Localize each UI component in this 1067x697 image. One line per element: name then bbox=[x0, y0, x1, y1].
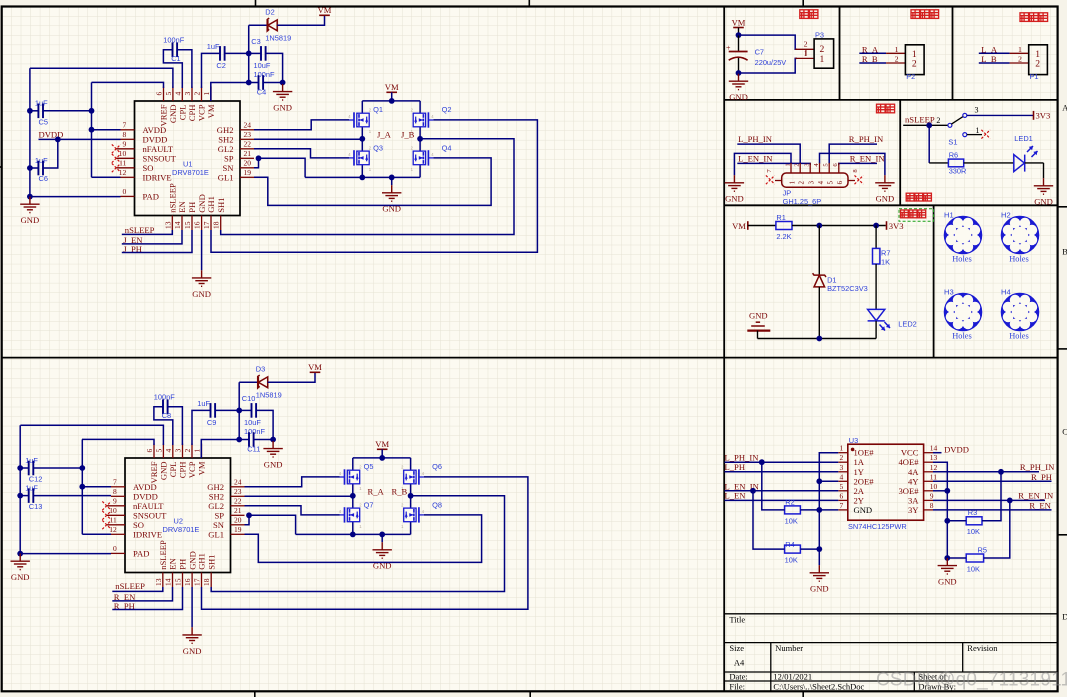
svg-text:23: 23 bbox=[234, 487, 242, 496]
svg-text:8: 8 bbox=[123, 130, 127, 139]
wire 3A R_EN_IN bbox=[933, 499, 1045, 501]
switch lever bbox=[951, 116, 963, 124]
svg-text:J_B: J_B bbox=[401, 129, 415, 139]
wire pin14 VCC to DVDD bbox=[933, 452, 942, 454]
svg-text:VM: VM bbox=[197, 461, 207, 475]
pin 9 3A U3 bbox=[924, 499, 933, 501]
svg-text:2.2K: 2.2K bbox=[776, 232, 791, 241]
svg-text:16: 16 bbox=[183, 578, 192, 586]
capacitor C10 10uF bbox=[252, 403, 257, 418]
svg-text:1N5819: 1N5819 bbox=[256, 391, 282, 400]
wire nSLEEP to pin13 U2 bbox=[112, 587, 163, 591]
svg-text:13: 13 bbox=[163, 221, 172, 229]
svg-text:1: 1 bbox=[193, 449, 202, 453]
no-ERC cross U2 pin bbox=[102, 501, 111, 510]
svg-text:R_PH_IN: R_PH_IN bbox=[849, 134, 884, 144]
svg-text:VCP: VCP bbox=[187, 461, 197, 478]
svg-text:SP: SP bbox=[214, 510, 224, 520]
wire to pin0 PAD U2 bbox=[20, 553, 111, 555]
svg-text:Q5: Q5 bbox=[364, 462, 374, 471]
LED LED2 bbox=[868, 309, 890, 330]
svg-text:1uF: 1uF bbox=[35, 99, 48, 108]
wire S1 to 3V3 bbox=[967, 114, 1034, 116]
svg-text:22: 22 bbox=[244, 140, 252, 149]
wire C13 to pin8 DVDD U2 bbox=[33, 495, 111, 497]
svg-text:nSLEEP: nSLEEP bbox=[168, 183, 178, 213]
connector P2 body bbox=[905, 45, 924, 75]
wire top rail VM bbox=[353, 457, 411, 459]
svg-text:C9: C9 bbox=[207, 418, 216, 427]
svg-text:SO: SO bbox=[133, 520, 144, 530]
svg-text:6: 6 bbox=[840, 491, 844, 500]
pin 22 GL2 U1 bbox=[240, 148, 254, 150]
wire Q4 column bbox=[419, 139, 421, 178]
no-ERC cross U1 pin bbox=[112, 163, 121, 172]
svg-text:15: 15 bbox=[174, 578, 183, 586]
wire rail to R5 bbox=[947, 557, 966, 559]
wire DVDD to C6 bbox=[43, 139, 58, 168]
svg-text:VM: VM bbox=[206, 104, 216, 118]
pin 6 JP bbox=[838, 163, 840, 173]
pin 17 GH1 U2 bbox=[201, 573, 203, 588]
svg-text:C:\Users\..\Sheet2.SchDoc: C:\Users\..\Sheet2.SchDoc bbox=[773, 681, 864, 691]
junction bbox=[736, 70, 742, 76]
svg-text:7: 7 bbox=[113, 478, 117, 487]
junction bbox=[89, 127, 95, 133]
svg-text:SH2: SH2 bbox=[209, 491, 224, 501]
svg-text:12: 12 bbox=[119, 168, 127, 177]
junction node R_B bbox=[408, 493, 414, 499]
junction SP bbox=[256, 155, 262, 161]
schottky diode D3 1N5819 bbox=[258, 375, 268, 388]
wire C2 to C3 bbox=[225, 52, 249, 54]
svg-text:5: 5 bbox=[155, 449, 164, 453]
wire R1 to 3V3 bbox=[792, 225, 886, 227]
pin 16 GND U2 bbox=[191, 573, 193, 588]
svg-text:16: 16 bbox=[193, 221, 202, 229]
svg-text:R7: R7 bbox=[881, 249, 890, 258]
svg-text:23: 23 bbox=[244, 130, 252, 139]
wire nSLEEP down bbox=[928, 125, 930, 163]
ground under U1 bbox=[192, 270, 211, 286]
svg-text:10: 10 bbox=[119, 149, 127, 158]
svg-text:8: 8 bbox=[113, 487, 117, 496]
wire VM stem bbox=[738, 28, 740, 36]
svg-text:3: 3 bbox=[174, 449, 183, 453]
svg-text:CPL: CPL bbox=[168, 462, 178, 478]
ground U3 right bbox=[938, 558, 957, 574]
selection box power led bbox=[899, 209, 934, 222]
junction bbox=[17, 551, 23, 557]
svg-text:VCC: VCC bbox=[901, 448, 919, 458]
junction R7 top bbox=[873, 223, 879, 229]
svg-text:4Y: 4Y bbox=[908, 476, 919, 486]
junction bbox=[79, 465, 85, 471]
svg-text:R6: R6 bbox=[949, 150, 958, 159]
capacitor C4 bbox=[259, 75, 264, 90]
svg-text:GND: GND bbox=[854, 505, 873, 515]
junction bbox=[736, 32, 742, 38]
power port 3V3 enable box bbox=[1033, 111, 1035, 120]
junction bbox=[27, 165, 33, 171]
wire pin4 to OE rail bbox=[819, 480, 838, 482]
pin 10 3OE# U3 bbox=[924, 490, 933, 492]
svg-text:GND: GND bbox=[725, 194, 744, 204]
zener diode D1 BZT52C3V3 bbox=[813, 273, 826, 287]
junction bbox=[359, 175, 365, 181]
pin 13 nSLEEP U2 bbox=[162, 573, 164, 588]
svg-text:DVDD: DVDD bbox=[143, 134, 168, 144]
svg-text:DVDD: DVDD bbox=[133, 491, 158, 501]
wire GL1 to Q4 gate bbox=[254, 158, 491, 206]
wire J_PH to pin15 bbox=[122, 230, 192, 253]
no-ERC cross U2 pin bbox=[102, 520, 111, 529]
svg-text:C6: C6 bbox=[39, 174, 48, 183]
svg-text:1uF: 1uF bbox=[25, 484, 38, 493]
capacitor C6 bbox=[38, 161, 43, 176]
junction bbox=[816, 507, 822, 513]
svg-text:C1: C1 bbox=[171, 54, 180, 63]
pin 1 VM U1 bbox=[210, 87, 212, 102]
svg-text:nFAULT: nFAULT bbox=[143, 144, 174, 154]
svg-text:2: 2 bbox=[936, 116, 940, 125]
wire GH1 to Q6 gate bbox=[202, 477, 528, 609]
svg-text:24: 24 bbox=[234, 478, 242, 487]
svg-text:13: 13 bbox=[930, 453, 938, 462]
svg-text:4OE#: 4OE# bbox=[898, 457, 919, 467]
chinese label enable led bbox=[906, 193, 931, 201]
chinese label signal bbox=[877, 104, 895, 113]
mounting hole H1 bbox=[944, 216, 983, 255]
svg-text:GH2: GH2 bbox=[207, 482, 224, 492]
ground left rail U2 bbox=[11, 554, 30, 570]
svg-text:GND: GND bbox=[1034, 197, 1053, 207]
capacitor C9 bbox=[211, 403, 216, 418]
junction bbox=[944, 518, 950, 524]
wire SH2 node J_A bbox=[254, 138, 362, 140]
svg-text:GH2: GH2 bbox=[217, 125, 234, 135]
wire to pin1 VM bbox=[201, 440, 239, 459]
junction bbox=[246, 80, 252, 86]
wire to R6 bbox=[929, 162, 948, 164]
wire C8 left to CPL bbox=[154, 407, 173, 445]
switch S1 SPDT bbox=[948, 123, 952, 127]
svg-text:1N5819: 1N5819 bbox=[265, 34, 291, 43]
svg-text:Holes: Holes bbox=[1009, 255, 1029, 264]
wire to D1 bbox=[818, 226, 820, 276]
wire Q5 drain-source column bbox=[352, 458, 354, 496]
svg-text:15: 15 bbox=[183, 221, 192, 229]
capacitor C12 bbox=[29, 461, 34, 476]
pin 11 SO U1 bbox=[116, 167, 134, 169]
power port 3V3 power-led box bbox=[886, 221, 888, 230]
svg-text:12: 12 bbox=[930, 463, 938, 472]
svg-text:Q7: Q7 bbox=[364, 500, 374, 509]
svg-text:VM: VM bbox=[732, 221, 746, 231]
resistor R1 2.2K bbox=[776, 222, 792, 230]
transistor Q1 bbox=[357, 113, 369, 127]
svg-text:1Y: 1Y bbox=[854, 467, 865, 477]
wire C1 right to CPH bbox=[177, 50, 192, 88]
svg-text:19: 19 bbox=[244, 168, 252, 177]
svg-text:H2: H2 bbox=[1001, 211, 1011, 220]
svg-text:LED1: LED1 bbox=[1014, 134, 1033, 143]
svg-text:GH1: GH1 bbox=[206, 196, 216, 213]
svg-text:Q3: Q3 bbox=[373, 143, 383, 152]
svg-text:2: 2 bbox=[895, 55, 899, 64]
svg-text:GND: GND bbox=[729, 92, 748, 102]
wire D3 anode to VM bbox=[268, 372, 315, 382]
svg-text:R_B: R_B bbox=[392, 486, 408, 496]
ground at C4 bbox=[273, 84, 292, 100]
pin 1 P1 bbox=[1010, 52, 1029, 54]
transistor Q5 bbox=[347, 470, 359, 484]
svg-text:6: 6 bbox=[155, 92, 164, 96]
svg-text:U1: U1 bbox=[183, 160, 192, 169]
capacitor C8 bbox=[163, 399, 168, 414]
svg-text:GND: GND bbox=[11, 572, 30, 582]
wire VCP rail vertical bbox=[238, 382, 240, 439]
svg-text:P1: P1 bbox=[1030, 72, 1039, 81]
svg-text:Q6: Q6 bbox=[432, 462, 442, 471]
IC U1 DRV8701E body bbox=[135, 101, 241, 216]
svg-text:EN: EN bbox=[168, 558, 178, 570]
connector P1 body bbox=[1029, 45, 1048, 75]
pin 14 EN U2 bbox=[172, 573, 174, 588]
transistor Q2 bbox=[413, 113, 425, 127]
svg-text:CPH: CPH bbox=[178, 462, 188, 479]
svg-text:Holes: Holes bbox=[1009, 332, 1029, 341]
svg-text:17: 17 bbox=[202, 221, 211, 229]
junction VM rail bbox=[379, 455, 385, 461]
junction node J_B bbox=[417, 136, 423, 142]
wire Q7 column bbox=[352, 496, 354, 535]
junction bbox=[246, 51, 252, 57]
wire Q6 drain-source column bbox=[410, 458, 412, 496]
pin 3 JP bbox=[809, 163, 811, 173]
pin 18 SH1 U1 bbox=[220, 216, 222, 231]
svg-text:SN74HC125PWR: SN74HC125PWR bbox=[848, 522, 907, 531]
svg-text:330R: 330R bbox=[949, 166, 967, 175]
wire pin7 GND to rail bbox=[819, 509, 838, 511]
wire Q1 drain-source column bbox=[361, 101, 363, 139]
svg-text:Q8: Q8 bbox=[432, 500, 442, 509]
svg-text:0: 0 bbox=[123, 187, 127, 196]
svg-text:2: 2 bbox=[1018, 55, 1022, 64]
pin 4 2OE# U3 bbox=[838, 480, 848, 482]
junction bbox=[1007, 498, 1013, 504]
svg-text:GL1: GL1 bbox=[208, 529, 224, 539]
svg-text:Revision: Revision bbox=[967, 643, 998, 653]
wire GND rail to pin5 bbox=[30, 68, 173, 88]
horizontal divider mid-sheet bbox=[2, 357, 1058, 359]
svg-text:PH: PH bbox=[178, 559, 188, 570]
svg-text:H1: H1 bbox=[944, 211, 954, 220]
wire bottom rail bbox=[305, 176, 420, 178]
resistor R4 10K bbox=[785, 545, 801, 553]
svg-text:2: 2 bbox=[1035, 59, 1040, 70]
wire to pin1 VM bbox=[211, 83, 249, 102]
pin 4 CPL U1 bbox=[181, 87, 183, 102]
wire rail to pin12 U2 bbox=[82, 533, 111, 535]
divider power/right-motor bbox=[839, 7, 841, 100]
wire R_B to P2 bbox=[859, 62, 886, 64]
pin 10 SNSOUT U2 bbox=[107, 514, 125, 516]
svg-text:SH2: SH2 bbox=[218, 134, 233, 144]
wire J_EN to pin14 bbox=[122, 230, 182, 244]
junction D1 top bbox=[816, 223, 822, 229]
title block bbox=[724, 614, 1057, 692]
pin 4 CPL U2 bbox=[172, 444, 174, 459]
wire pin10 to rail bbox=[933, 490, 947, 492]
svg-text:VM: VM bbox=[375, 439, 389, 449]
svg-text:3A: 3A bbox=[908, 495, 919, 505]
no-ERC cross U1 pin bbox=[112, 154, 121, 163]
wire R_EN_IN to JP pin6 bbox=[839, 163, 877, 165]
wire R_EN to pin14 U2 bbox=[112, 587, 172, 601]
svg-text:GH1: GH1 bbox=[197, 553, 207, 570]
svg-text:18: 18 bbox=[202, 578, 211, 586]
pin 15 PH U1 bbox=[191, 216, 193, 231]
mounting hole H2 bbox=[1001, 216, 1040, 255]
wire L_EN_IN to JP pin3 bbox=[737, 163, 810, 165]
pin 18 SH1 U2 bbox=[210, 573, 212, 588]
wire left GND rail vertical U2 bbox=[19, 425, 21, 553]
wire GL2 to Q7 gate bbox=[245, 506, 340, 515]
pin 3 CPH U1 bbox=[191, 87, 193, 102]
wire GL1 to Q8 gate bbox=[245, 515, 482, 563]
svg-text:5: 5 bbox=[164, 92, 173, 96]
svg-text:C7: C7 bbox=[755, 48, 764, 57]
svg-text:C5: C5 bbox=[39, 117, 48, 126]
pin 2 P2 bbox=[886, 62, 905, 64]
transistor Q3 bbox=[357, 151, 369, 165]
ground signal right bbox=[875, 175, 894, 191]
svg-text:L_PH: L_PH bbox=[725, 462, 746, 472]
junction bbox=[759, 459, 765, 465]
svg-text:1uF: 1uF bbox=[197, 399, 210, 408]
wire SH2 node R_A bbox=[245, 495, 353, 497]
svg-text:CPL: CPL bbox=[178, 105, 188, 121]
svg-text:220u/25V: 220u/25V bbox=[755, 58, 787, 67]
junction bbox=[816, 478, 822, 484]
svg-text:2: 2 bbox=[840, 453, 844, 462]
pin 16 GND U1 bbox=[201, 216, 203, 231]
wire VM to P3 pin2 bbox=[739, 35, 798, 49]
svg-text:10: 10 bbox=[930, 482, 938, 491]
connector JP body bbox=[782, 173, 848, 187]
wire C12 to AVDD rail U2 bbox=[33, 467, 82, 469]
svg-text:3V3: 3V3 bbox=[1036, 111, 1051, 121]
ground enable box bbox=[1034, 178, 1053, 194]
pin 21 SP U1 bbox=[240, 157, 254, 159]
pin 10 SNSOUT U1 bbox=[116, 157, 134, 159]
wire R7 to LED2 bbox=[875, 264, 877, 309]
wire GH1 to Q2 gate bbox=[211, 120, 537, 252]
pin 23 SH2 U2 bbox=[231, 495, 245, 497]
no-ERC cross JP pin8 bbox=[855, 175, 864, 184]
pin 2 JP bbox=[799, 163, 801, 173]
wire L_EN to pin6 bbox=[725, 499, 839, 501]
pin 2 VCP U2 bbox=[191, 444, 193, 459]
wire D2 anode to VM bbox=[277, 15, 324, 25]
wire L_PH_IN to pin2 bbox=[725, 461, 839, 463]
capacitor C3 10uF bbox=[261, 46, 266, 61]
svg-text:4: 4 bbox=[818, 180, 825, 184]
pin 0 PAD U2 bbox=[111, 552, 125, 554]
pin 14 VCC U3 bbox=[924, 452, 933, 454]
svg-text:SP: SP bbox=[224, 153, 234, 163]
pin 19 GL1 U1 bbox=[240, 176, 254, 178]
wire to pin7 AVDD U2 bbox=[82, 486, 111, 488]
svg-text:1: 1 bbox=[820, 54, 825, 65]
resistor R6 330R bbox=[948, 159, 963, 167]
svg-text:4A: 4A bbox=[908, 467, 919, 477]
pin 1 JP bbox=[790, 163, 792, 173]
wire gnd to P3 pin1 bbox=[739, 58, 798, 73]
svg-text:Holes: Holes bbox=[952, 255, 972, 264]
wire R6 to LED1 bbox=[964, 162, 1014, 164]
divider signal/enable-led bbox=[899, 100, 901, 205]
svg-text:2: 2 bbox=[193, 92, 202, 96]
svg-text:7: 7 bbox=[840, 501, 844, 510]
svg-text:H4: H4 bbox=[1001, 288, 1011, 297]
wire Q2 drain-source column bbox=[419, 101, 421, 139]
svg-text:GL1: GL1 bbox=[218, 172, 234, 182]
pin 2 VCP U1 bbox=[201, 87, 203, 102]
capacitor C2 bbox=[220, 46, 225, 61]
svg-text:SO: SO bbox=[143, 163, 154, 173]
wire Q3 column bbox=[361, 139, 363, 178]
pin 1 1OE# U3 bbox=[838, 452, 848, 454]
svg-text:12/01/2021: 12/01/2021 bbox=[773, 672, 812, 682]
chinese label power led bbox=[901, 210, 926, 218]
wire C5 to AVDD rail bbox=[43, 110, 92, 112]
pin 3 1Y U3 bbox=[838, 471, 848, 473]
svg-text:Date:: Date: bbox=[729, 672, 747, 682]
connector P3 body bbox=[814, 39, 834, 68]
transistor Q6 bbox=[404, 470, 416, 484]
svg-text:10uF: 10uF bbox=[244, 418, 261, 427]
pin 11 SO U2 bbox=[107, 524, 125, 526]
svg-text:12: 12 bbox=[109, 525, 117, 534]
ground U3 left bbox=[810, 565, 829, 581]
svg-text:100nF: 100nF bbox=[154, 393, 175, 402]
svg-text:1: 1 bbox=[895, 45, 899, 54]
svg-text:C12: C12 bbox=[29, 475, 43, 484]
svg-text:1uF: 1uF bbox=[207, 42, 220, 51]
wire GH2 to Q1 gate bbox=[254, 120, 349, 130]
svg-text:3Y: 3Y bbox=[908, 505, 919, 515]
svg-text:13: 13 bbox=[154, 578, 163, 586]
svg-text:3: 3 bbox=[840, 463, 844, 472]
ground left rail U1 bbox=[20, 197, 39, 213]
svg-text:GND: GND bbox=[810, 584, 829, 594]
svg-text:19: 19 bbox=[234, 525, 242, 534]
stub S1 pin1 bbox=[967, 134, 982, 136]
pin 23 SH2 U1 bbox=[240, 138, 254, 140]
no-ERC cross JP pin7 bbox=[766, 175, 775, 184]
wire SP-SN tie bbox=[245, 515, 250, 525]
pin 6 VREF U2 bbox=[153, 444, 155, 459]
pin1 dot U3 bbox=[851, 448, 855, 452]
wire C10 to gnd rail bbox=[256, 410, 273, 439]
svg-text:3: 3 bbox=[975, 105, 979, 114]
svg-text:S1: S1 bbox=[948, 137, 957, 146]
pin 2 1A U3 bbox=[838, 461, 848, 463]
wire SN to bottom rail bbox=[259, 158, 306, 177]
pin 5 2A U3 bbox=[838, 490, 848, 492]
